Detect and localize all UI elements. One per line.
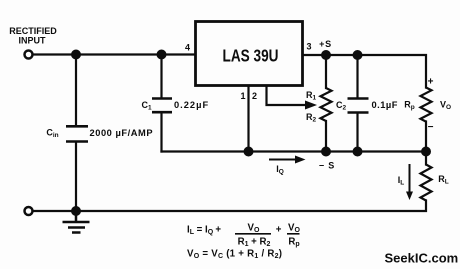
wire Cin branch upper (75, 55, 77, 126)
wire pin 1 (247, 86, 249, 152)
wire Rp bottom to -S rail (425, 122, 427, 165)
ground (63, 211, 90, 233)
capacitor C2 plates (348, 99, 369, 113)
svg-text:VO = VC (1 + R1 / R2): VO = VC (1 + R1 / R2) (187, 248, 282, 260)
terminal ground output (25, 207, 33, 215)
svg-text:0.1µF: 0.1µF (372, 100, 398, 110)
svg-text:INPUT: INPUT (19, 36, 47, 46)
svg-text:−: − (428, 122, 434, 133)
svg-text:R1 + R2: R1 + R2 (238, 237, 271, 249)
node pot bottom junction (321, 147, 331, 157)
svg-text:2: 2 (252, 91, 257, 101)
svg-text:+: + (215, 225, 221, 236)
svg-text:LAS 39U: LAS 39U (223, 46, 279, 66)
capacitor Cin plates (66, 126, 88, 141)
wire top-right rail (pin 3 to Rp corner) (303, 55, 426, 88)
node +S pot junction (321, 50, 331, 60)
op-amp box U1 LAS 39U (196, 22, 303, 86)
wire C2 lower (356, 113, 358, 151)
wire C2 upper (356, 55, 358, 97)
node Rp RL junction (421, 147, 431, 157)
node C2 top junction (353, 50, 363, 60)
node input-C1 junction (157, 50, 167, 60)
resistor Rp (421, 88, 432, 122)
wire IQ current arrow (269, 156, 306, 164)
node Cin ground junction (71, 206, 81, 216)
node pin1 -S junction (244, 147, 254, 157)
wire pin2 wiper arrow (305, 101, 317, 110)
svg-text:SeekIC.com: SeekIC.com (385, 251, 459, 266)
wire IL current arrow (406, 164, 413, 200)
svg-text:1: 1 (240, 91, 245, 101)
wire Cin branch lower (75, 143, 77, 212)
svg-text:− S: − S (319, 160, 335, 170)
svg-text:+S: +S (319, 39, 332, 49)
resistor R1 R2 potentiometer (321, 88, 332, 121)
wire pot bottom lead (325, 121, 327, 152)
node input-Cin junction (71, 50, 81, 60)
svg-text:3: 3 (306, 42, 311, 52)
wire C1 branch lower (160, 113, 162, 152)
wire pot top lead (325, 55, 327, 88)
svg-text:4: 4 (185, 43, 190, 53)
wire C1 branch upper (160, 55, 162, 98)
resistor RL (421, 165, 432, 201)
svg-text:+: + (276, 225, 282, 236)
terminal rectified input (25, 51, 33, 59)
svg-text:RECTIFIED: RECTIFIED (9, 26, 57, 36)
label formula IL equation (187, 223, 301, 249)
wire -S rail (162, 150, 427, 152)
wire pin 2 (267, 86, 307, 106)
label RECTIFIED INPUT (9, 26, 57, 46)
capacitor C1 plates (152, 99, 172, 113)
svg-text:+: + (428, 77, 434, 88)
wire input rail (33, 53, 195, 55)
node C2 bottom junction (353, 147, 363, 157)
wire bottom rail (33, 201, 426, 212)
svg-text:2000 µF/AMP: 2000 µF/AMP (90, 128, 154, 138)
svg-text:0.22µF: 0.22µF (174, 100, 209, 110)
